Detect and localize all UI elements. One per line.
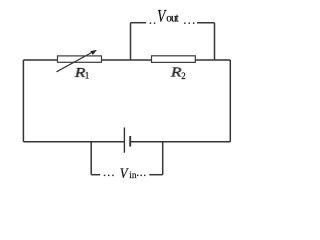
wire right side of main loop	[229, 60, 231, 142]
svg-text:R: R	[170, 65, 182, 80]
wire Vout top right solid segment	[197, 22, 215, 24]
svg-text:1: 1	[85, 71, 90, 81]
svg-text:out: out	[166, 13, 179, 25]
dots left of Vout label	[150, 22, 156, 24]
wire Vout loop left vertical	[130, 23, 132, 60]
wire top of main loop	[23, 59, 230, 61]
svg-text:2: 2	[181, 71, 186, 81]
resistor R2 body	[152, 56, 196, 63]
wire Vin bottom left solid segment	[91, 174, 100, 176]
dots left of Vin label	[104, 175, 114, 177]
wire Vin bracket left vertical	[90, 142, 92, 175]
resistor R1 wiper arrowhead	[90, 50, 97, 55]
wire bottom right (from battery)	[130, 141, 230, 143]
battery long plate (positive)	[123, 128, 125, 153]
wire Vin bracket right vertical	[162, 142, 164, 175]
svg-text:in: in	[129, 171, 137, 181]
resistor R1 (variable) body	[58, 56, 102, 62]
dots right of Vin label	[137, 175, 146, 177]
resistor R1 wiper arrow shaft	[57, 51, 94, 71]
dots right of Vout label	[184, 22, 194, 24]
battery short plate (negative)	[129, 136, 131, 147]
wire bottom left (to battery)	[23, 141, 124, 143]
wire left side of main loop	[22, 60, 24, 142]
wire Vout top left solid segment	[131, 22, 147, 24]
wire Vout loop right vertical	[214, 23, 216, 60]
wire Vin bottom right solid segment	[149, 174, 162, 176]
